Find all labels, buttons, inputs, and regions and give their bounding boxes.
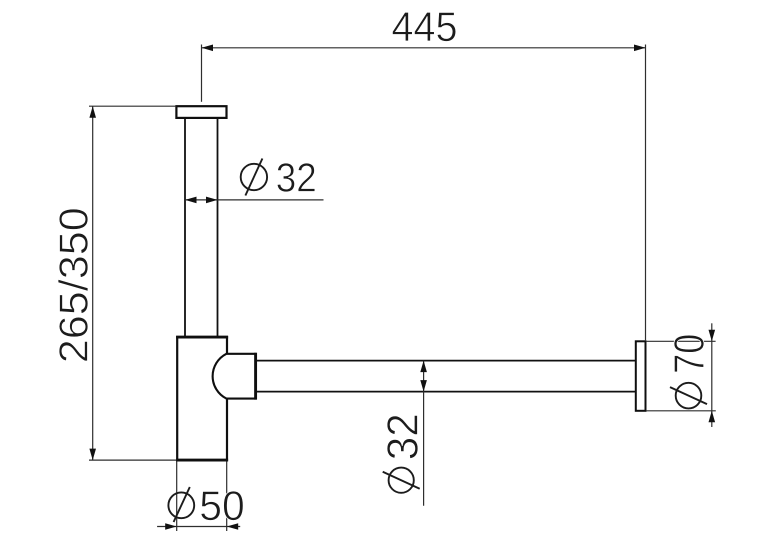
dimension dia70: extension line bottom xyxy=(646,410,716,412)
horizontal outlet pipe top wall xyxy=(257,360,636,362)
dimension dia70: extension line top xyxy=(646,340,716,342)
svg-text:265/350: 265/350 xyxy=(50,207,96,363)
dimension 445: right arrowhead xyxy=(634,45,646,52)
horizontal outlet pipe bottom wall xyxy=(257,391,636,393)
dimension 445: left arrowhead xyxy=(202,45,214,52)
svg-text:32: 32 xyxy=(379,413,428,460)
outlet elbow thick right edge xyxy=(254,353,257,400)
dimension dia32 (vertical pipe): diameter symbol xyxy=(241,159,267,196)
dimension dia32 (horizontal pipe): dimension line xyxy=(423,361,425,506)
dimension dia70: bottom arrowhead xyxy=(709,411,716,423)
svg-text:50: 50 xyxy=(199,482,245,529)
vertical tailpiece pipe right wall xyxy=(217,118,219,336)
dimension dia50: right arrowhead xyxy=(227,523,239,530)
dimension 445: extension line right (wall flange) xyxy=(645,45,647,341)
dimension dia50: extension line left xyxy=(176,462,178,532)
dimension 265/350: extension line bottom (body bottom) xyxy=(89,459,176,461)
dimension dia32 (horizontal pipe): label group (rotated) xyxy=(379,413,428,493)
vertical tailpiece pipe left wall xyxy=(184,118,186,336)
svg-text:32: 32 xyxy=(276,155,317,201)
dimension 445: dimension line xyxy=(202,47,646,49)
dimension dia32 (vertical pipe): left arrowhead xyxy=(185,197,197,204)
dimension dia32 (horizontal pipe): bottom arrowhead xyxy=(420,380,427,392)
dimension dia70: dimension line xyxy=(711,323,713,427)
dimension dia50: extension line right xyxy=(226,462,228,532)
dimension dia32 (vertical pipe): leader line xyxy=(185,199,324,201)
dimension 265/350: extension line top (flange top) xyxy=(89,105,176,107)
dimension 265/350: bottom arrowhead xyxy=(89,449,96,461)
dimension dia32 (horizontal pipe): top arrowhead xyxy=(420,361,427,373)
dimension 265/350: dimension line xyxy=(92,106,94,460)
trap body thick bottom edge xyxy=(176,459,228,462)
trap body xyxy=(177,337,227,460)
outlet elbow xyxy=(213,354,256,399)
dimension 265/350: top arrowhead xyxy=(89,106,96,118)
dimension dia50: dimension line xyxy=(157,526,240,528)
svg-text:445: 445 xyxy=(392,3,458,50)
dimension dia32 (vertical pipe): right arrowhead xyxy=(206,197,218,204)
top inlet flange xyxy=(176,106,226,118)
dimension dia70: label group (rotated) xyxy=(666,334,714,409)
svg-text:70: 70 xyxy=(666,334,714,374)
wall flange xyxy=(636,341,646,411)
dimension 445: extension line left (pipe centerline) xyxy=(201,45,203,102)
trap body thick top edge xyxy=(176,336,228,339)
dimension dia50: diameter symbol xyxy=(168,487,194,522)
dimension dia70: top arrowhead xyxy=(709,330,716,342)
dimension dia50: left arrowhead xyxy=(165,523,177,530)
